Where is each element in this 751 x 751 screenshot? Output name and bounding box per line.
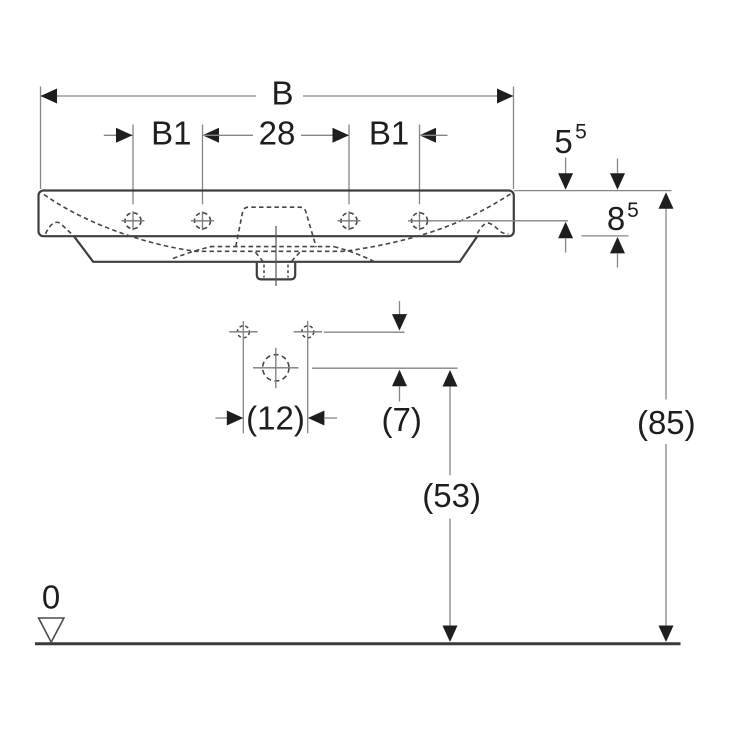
tap hole 3	[338, 211, 361, 230]
svg-text:(12): (12)	[246, 400, 305, 437]
svg-text:0: 0	[42, 579, 60, 616]
drain	[257, 263, 295, 280]
dim (7) down arrow	[392, 301, 407, 331]
dim (53) down arrowhead	[443, 626, 458, 643]
drain dashed inner edge left	[263, 265, 265, 278]
dimension B right arrowhead	[497, 89, 514, 104]
dashed drain convergence left	[256, 252, 265, 263]
dashed hill curve left	[173, 247, 211, 259]
svg-text:(85): (85)	[637, 404, 696, 441]
dimension 28 right arrow	[301, 128, 349, 143]
tap hole 2	[191, 211, 214, 230]
zero baseline	[35, 642, 681, 645]
svg-text:B: B	[271, 75, 293, 112]
dashed left rim curve and bowl bottom line	[44, 195, 345, 252]
dim (12) left arrow	[215, 411, 243, 426]
reference line siphon level	[312, 367, 458, 369]
dashed fall curve right	[334, 247, 374, 262]
dimension 28 left arrow	[203, 128, 254, 143]
svg-text:(53): (53)	[422, 477, 481, 514]
dim 8.5 up arrow	[610, 237, 625, 268]
dashed overflow hat	[236, 207, 316, 247]
dashed bowl floor line A	[210, 246, 334, 248]
extension line hole3	[348, 125, 350, 205]
dim (12) right arrow	[308, 411, 337, 426]
dim (53) up arrowhead	[443, 370, 458, 387]
extension line fixing hole right	[307, 321, 309, 433]
dim 5.5 down arrow left	[558, 158, 573, 190]
basin lower body	[74, 236, 477, 261]
svg-text:28: 28	[259, 115, 296, 152]
svg-text:5: 5	[575, 120, 587, 143]
svg-text:8: 8	[607, 200, 625, 237]
dashed bump right	[477, 223, 508, 234]
tap hole 1	[122, 211, 145, 230]
basin center line	[275, 226, 277, 286]
reference line tap hole level	[431, 220, 568, 222]
label 5^5	[554, 120, 587, 159]
fixing hole right	[294, 326, 322, 338]
fixing hole left	[229, 326, 257, 338]
dimension B1 right arrow	[420, 128, 448, 143]
dim 8.5 down arrow	[610, 159, 625, 190]
dashed right rim curve	[345, 194, 511, 251]
dimension B line	[41, 95, 514, 97]
label 8^5	[607, 199, 639, 237]
extension line hole1	[132, 125, 134, 205]
dimension B1 left arrow	[104, 128, 133, 143]
tap hole 4	[408, 211, 431, 230]
svg-text:B1: B1	[151, 115, 191, 152]
reference line basin bottom edge	[582, 235, 629, 237]
dim 5.5 up arrow	[558, 222, 573, 253]
dim (7) up arrow	[392, 370, 407, 402]
siphon circle	[253, 348, 299, 388]
dashed drain convergence right	[290, 252, 300, 263]
extension line B left	[40, 87, 42, 190]
extension line fixing hole left	[242, 321, 244, 433]
svg-text:(7): (7)	[382, 401, 422, 438]
dimension B left arrowhead	[41, 89, 58, 104]
extension line hole4	[419, 125, 421, 205]
datum triangle	[39, 618, 64, 642]
dim (85) down arrowhead	[659, 626, 674, 643]
dim (53) vertical line	[449, 386, 451, 625]
dashed bump left	[46, 222, 75, 236]
svg-text:5: 5	[554, 123, 572, 160]
svg-text:B1: B1	[369, 115, 409, 152]
extension line hole2	[202, 125, 204, 205]
drain dashed inner edge right	[287, 265, 289, 278]
dim (85) up arrowhead	[659, 192, 674, 209]
basin outline	[39, 191, 514, 237]
reference line fixing holes level	[324, 331, 405, 333]
reference line basin top edge	[514, 190, 672, 192]
extension line B right	[513, 87, 515, 190]
dim (85) vertical line	[665, 208, 667, 625]
svg-text:5: 5	[627, 199, 639, 222]
